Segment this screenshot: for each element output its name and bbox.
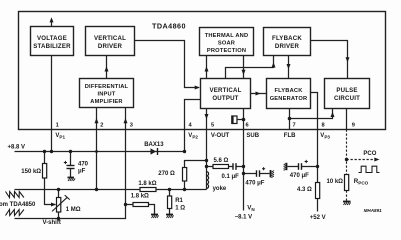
svg-text:4.3 Ω: 4.3 Ω: [297, 187, 312, 193]
wire pin4 down to rail: [184, 130, 186, 152]
svg-text:R1: R1: [175, 198, 183, 204]
wire pin2 down: [96, 130, 98, 190]
external wires: [15, 130, 318, 219]
wire diff amp to vertical driver: [106, 56, 108, 79]
svg-text:470 μF: 470 μF: [245, 180, 264, 186]
svg-text:VP2: VP2: [188, 133, 198, 140]
svg-text:1.8 kΩ: 1.8 kΩ: [131, 193, 149, 199]
junction pot top: [57, 188, 60, 191]
svg-text:2: 2: [100, 123, 103, 129]
svg-text:FLYBACK: FLYBACK: [272, 35, 302, 42]
junction 270 branch on pin5: [205, 159, 208, 162]
svg-text:1 MΩ: 1 MΩ: [66, 207, 81, 213]
svg-text:470: 470: [78, 161, 89, 167]
arrow up pin3: [124, 118, 128, 123]
svg-text:MHA891: MHA891: [364, 208, 383, 213]
arrow up into pulse circuit bottom: [331, 112, 335, 117]
arrow down pin5: [205, 114, 209, 119]
svg-text:DIFFERENTIAL: DIFFERENTIAL: [85, 84, 129, 90]
svg-text:DRIVER: DRIVER: [275, 43, 300, 50]
svg-text:THERMAL AND: THERMAL AND: [205, 33, 249, 39]
svg-text:470 μF: 470 μF: [290, 173, 309, 179]
block voltage stabilizer: [31, 27, 74, 56]
svg-text:9: 9: [352, 123, 355, 129]
svg-text:yoke: yoke: [213, 186, 227, 192]
wire pin3 down to V-shift rail: [15, 130, 126, 219]
arrow down into flyback generator: [287, 64, 291, 69]
capacitor 470uF left: [64, 161, 75, 169]
svg-text:SUB: SUB: [246, 133, 259, 139]
wire 150k top: [44, 152, 46, 164]
pin labels: [55, 133, 330, 140]
capacitor 470uF mid: [257, 167, 266, 177]
svg-text:TDA4860: TDA4860: [152, 21, 186, 30]
svg-text:+8.8 V: +8.8 V: [8, 145, 26, 151]
wire pin5: [206, 109, 208, 130]
diode BAX13: [151, 148, 158, 155]
wire pot bottom: [58, 212, 60, 219]
wire stabilizer top arrow: [51, 20, 53, 27]
svg-text:V-shift: V-shift: [43, 220, 61, 226]
dashed pin9 wire down: [347, 130, 377, 202]
wire 470uF left top: [70, 152, 72, 166]
block flyback driver: [264, 28, 311, 56]
wire 150k bottom to pot wiper: [45, 178, 56, 205]
svg-text:DRIVER: DRIVER: [98, 43, 123, 50]
ground 470uF left: [68, 178, 76, 182]
ground 470uF pin8: [284, 163, 287, 171]
svg-text:6: 6: [246, 123, 249, 129]
wire pin7 from flyback generator: [289, 109, 291, 130]
capacitor 470uF pin8: [299, 160, 308, 170]
svg-text:V-OUT: V-OUT: [211, 133, 230, 139]
svg-text:+52 V: +52 V: [310, 215, 326, 221]
component sub resistor at pin6: [232, 115, 244, 124]
wire pin3: [125, 108, 127, 130]
junction sub component on pin6: [242, 118, 246, 122]
arrow down into pulse circuit top: [346, 57, 350, 62]
potentiometer 1M: [51, 195, 70, 212]
block pulse circuit: [325, 79, 370, 109]
svg-text:VP3: VP3: [320, 133, 330, 140]
junction pin3 1.8k: [124, 203, 127, 206]
svg-text:8: 8: [322, 123, 325, 129]
svg-text:STABILIZER: STABILIZER: [33, 43, 71, 50]
wire pot top: [58, 190, 60, 198]
junction 270 bottom: [183, 188, 186, 191]
svg-text:5: 5: [211, 123, 214, 129]
wire pin2: [96, 108, 98, 130]
svg-text:7: 7: [293, 123, 296, 129]
junction snubber branch on pin5: [205, 165, 208, 168]
svg-text:FLB: FLB: [284, 133, 296, 139]
ground RPCO: [343, 202, 351, 206]
arrow down into vertical output: [242, 70, 246, 75]
wire pin1 to +8.8V rail: [51, 130, 53, 152]
svg-text:VOLTAGE: VOLTAGE: [37, 35, 67, 42]
wire vertical output to flyback driver: [226, 56, 274, 79]
wire pin7 branch to pulse circuit: [290, 109, 333, 119]
waveform PCO pulses: [359, 166, 380, 172]
capacitor 0.1uF: [233, 163, 236, 170]
arrow right to flyback generator: [256, 92, 261, 96]
wire pin1 from stabilizer: [51, 56, 53, 130]
block thermal and soar protection: [200, 28, 254, 56]
resistor 150k: [43, 164, 47, 179]
junction pin4 corner: [183, 150, 186, 153]
svg-text:0.1 μF: 0.1 μF: [222, 174, 240, 180]
block differential input amplifier: [80, 79, 134, 108]
junction 0.1uF on pin6: [242, 165, 245, 168]
wire mid rail: [15, 189, 207, 191]
wire pin9 from pulse circuit: [346, 109, 348, 130]
wire pin6 down: [243, 130, 245, 211]
wire pin8 down: [317, 130, 319, 183]
svg-text:VP1: VP1: [55, 133, 65, 140]
resistor 1.8k upper: [140, 188, 156, 192]
arrow up into thermal: [205, 66, 209, 71]
junction pin2 on mid rail: [95, 188, 98, 191]
junction R1 top: [168, 188, 171, 191]
svg-text:3: 3: [130, 123, 133, 129]
wire 5.6 branch left: [207, 166, 214, 168]
junction 470uF on +8.8V rail: [69, 150, 72, 153]
resistor 4.3: [316, 183, 320, 199]
junction 470uF on pin8: [316, 165, 319, 168]
arrow right into vertical output: [195, 86, 200, 90]
junction 150k on +8.8V rail: [43, 150, 46, 153]
svg-text:μF: μF: [78, 168, 86, 174]
wire 1.8k lower right to ground: [149, 205, 155, 215]
wire R1 top: [169, 190, 171, 197]
svg-text:PROTECTION: PROTECTION: [207, 48, 246, 54]
junction pin2 on +8.8V rail: [95, 150, 98, 153]
block vertical output: [201, 79, 251, 109]
junction 470uF branch on pin6: [242, 172, 245, 175]
wire +8.8V rail left part: [15, 151, 151, 153]
svg-text:5.6 Ω: 5.6 Ω: [214, 158, 229, 164]
junction pot bottom: [57, 217, 60, 220]
svg-text:−8.1 V: −8.1 V: [235, 214, 253, 220]
wire flyback generator to pin8: [311, 93, 318, 130]
resistor 270: [183, 168, 187, 182]
svg-text:om TDA4850: om TDA4850: [0, 202, 36, 208]
inductor yoke: [207, 172, 209, 189]
wire vertical output to thermal: [206, 56, 208, 79]
arrow up pin2: [95, 118, 99, 123]
arrow up diff to driver: [105, 66, 109, 71]
junction pulse circuit branch on pin7: [288, 117, 292, 121]
svg-text:150 kΩ: 150 kΩ: [21, 169, 41, 175]
svg-text:VERTICAL: VERTICAL: [209, 87, 241, 94]
svg-text:CIRCUIT: CIRCUIT: [334, 95, 360, 102]
wire thermal to vertical output: [243, 56, 245, 79]
wire 0.1uF right: [237, 166, 244, 168]
wire 470uF left bottom to ground: [70, 169, 72, 178]
svg-text:GENERATOR: GENERATOR: [270, 96, 308, 102]
wire 270 bottom: [184, 181, 186, 190]
arrowheads internal: [50, 17, 350, 123]
svg-text:INPUT: INPUT: [97, 92, 115, 98]
ground 1.8k lower: [151, 215, 159, 219]
svg-text:1: 1: [56, 123, 59, 129]
wire +8.8V rail right part: [158, 151, 185, 153]
wire 270 top branch: [185, 161, 207, 168]
wire 470uF mid branch left: [244, 173, 257, 175]
wire 1.8k lower left: [126, 204, 134, 206]
waveform sawtooth bottom: [6, 210, 24, 216]
wire flyback driver to pulse circuit: [311, 41, 348, 79]
wire vertical driver to vertical output: [135, 41, 200, 88]
arrow up into flyback driver: [272, 62, 276, 67]
junction PCO branch on pin9: [345, 158, 348, 161]
svg-text:OUTPUT: OUTPUT: [212, 95, 238, 102]
svg-text:SOAR: SOAR: [218, 40, 235, 46]
svg-text:1 Ω: 1 Ω: [175, 205, 185, 211]
wire 5.6 to 0.1uF: [229, 166, 233, 168]
svg-text:BAX13: BAX13: [144, 142, 164, 148]
block flyback generator: [267, 79, 311, 109]
ground R1: [166, 215, 174, 219]
svg-text:PCO: PCO: [363, 151, 376, 157]
svg-text:10 kΩ: 10 kΩ: [327, 179, 344, 185]
wire 470uF pin8 to pin8: [302, 166, 318, 168]
svg-text:AMPLIFIER: AMPLIFIER: [90, 99, 122, 105]
IC outline TDA4860: [19, 12, 386, 130]
wire 4.3 bottom: [317, 199, 319, 212]
resistor 5.6: [213, 165, 229, 169]
junction pin1 on +8.8V rail: [50, 150, 53, 153]
resistor 1.8k lower: [133, 203, 149, 207]
wire pin6: [243, 109, 245, 130]
svg-text:1.8 kΩ: 1.8 kΩ: [138, 181, 156, 187]
wire pin4 stub: [185, 100, 201, 130]
arrow up stabilizer: [50, 17, 54, 22]
svg-text:PULSE: PULSE: [336, 87, 357, 94]
wire 470uF pin8 ground side: [288, 166, 299, 168]
wire vertical output to flyback generator: [251, 93, 267, 95]
waveform sawtooth top: [6, 192, 24, 198]
resistor RPCO: [345, 175, 349, 191]
block vertical driver: [86, 27, 135, 56]
svg-text:270 Ω: 270 Ω: [158, 171, 175, 177]
arrow PCO: [374, 158, 379, 162]
wire 470uF mid to ground: [260, 173, 270, 175]
svg-text:FLYBACK: FLYBACK: [274, 88, 303, 94]
wire pin5 down to rail: [206, 130, 208, 190]
wire flyback driver to flyback generator: [288, 56, 290, 79]
svg-text:VERTICAL: VERTICAL: [94, 35, 126, 42]
ground 470uF mid: [271, 170, 275, 178]
resistor R1: [168, 196, 172, 209]
wire R1 bottom: [169, 209, 171, 215]
